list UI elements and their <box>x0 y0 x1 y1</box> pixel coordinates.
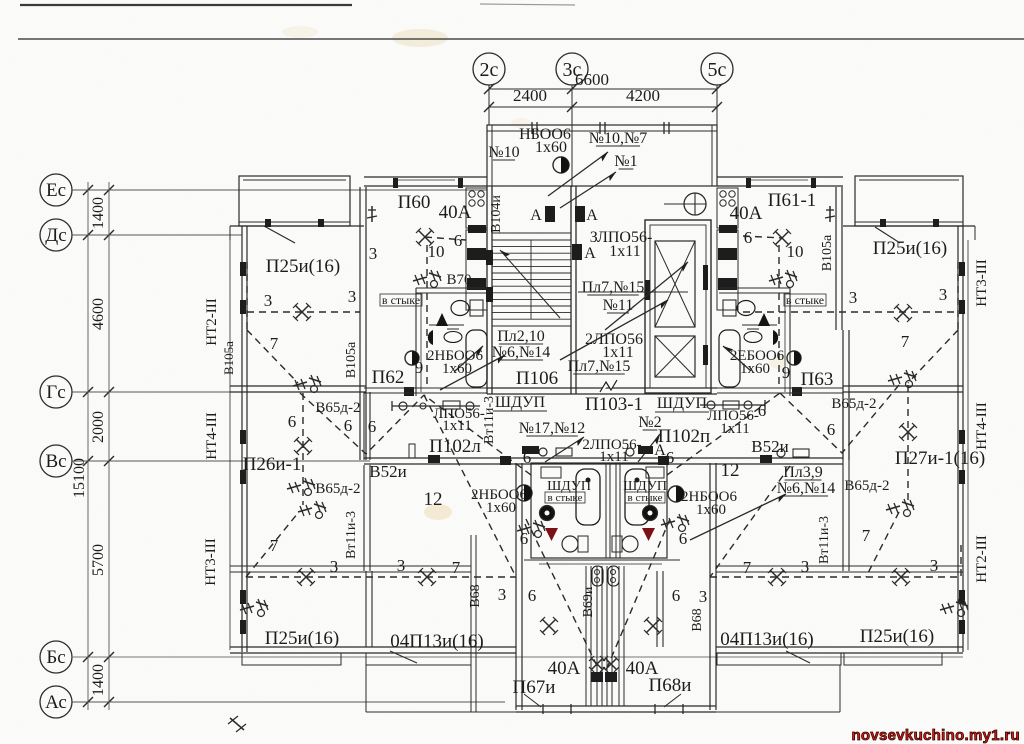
junction X bottom-left 2 <box>418 568 436 586</box>
wiring diagonals from bath block to wings <box>424 393 790 577</box>
lamp cluster П61 bath <box>769 270 797 288</box>
wiring left top room horizontal <box>247 311 360 313</box>
lower porch band <box>366 665 840 712</box>
stair wall dark marks <box>486 250 493 302</box>
balcony bottom-left 1 <box>242 653 341 665</box>
lift door slots <box>645 265 708 365</box>
junction X right top <box>894 304 912 322</box>
centre section bottom wall <box>487 388 717 394</box>
axis circle Бс <box>40 641 72 673</box>
label 2НБОО6 centre-right <box>681 489 738 518</box>
central bath washer units <box>541 467 664 478</box>
left wing window marks <box>240 262 246 634</box>
central bath dark triangles <box>545 528 655 541</box>
arrow lift lower <box>560 300 668 360</box>
balcony parapet marks left <box>265 219 324 227</box>
lift lobby left wall <box>575 230 577 388</box>
arrow №2 <box>638 434 660 462</box>
label в стыке right <box>784 293 826 307</box>
lift car upper <box>655 241 695 327</box>
axis line Гс <box>72 387 232 397</box>
axis circle 3с <box>556 53 588 85</box>
stair landing lines <box>492 233 571 326</box>
axis line Бс <box>72 652 963 662</box>
bathroom toilet left <box>451 300 483 316</box>
central block shelf line <box>524 560 680 564</box>
balcony bottom-right 2 <box>844 653 942 665</box>
label А black rect centre <box>638 446 653 454</box>
bottom wall of wing rooms <box>230 647 963 653</box>
junction X bottom-right 2 <box>892 568 910 586</box>
switch cluster centre-left wall <box>517 520 545 538</box>
room divider bottom right wing <box>657 571 663 647</box>
wall В105а right <box>836 187 849 460</box>
junction X centre right <box>644 617 662 635</box>
bathroom dashed drop left <box>426 245 428 388</box>
staircase left wall <box>487 186 492 394</box>
balcony bottom-right 1 <box>717 653 841 665</box>
central bath toilets <box>562 536 638 552</box>
bathroom dark triangle left <box>436 313 448 326</box>
fixture row corridor left <box>392 401 480 411</box>
balcony parapet marks right <box>880 219 939 227</box>
bathroom arrow right <box>723 346 751 371</box>
central bath tubs <box>576 469 649 525</box>
grid line 2с <box>484 84 494 125</box>
top centre balcony walls <box>487 125 717 186</box>
label А section marks <box>530 206 598 262</box>
balcony bottom-left 2 <box>366 653 471 665</box>
arrow lift upper <box>605 262 688 330</box>
central bathroom block walls <box>531 463 667 558</box>
label 2НБОО6 mid-left <box>427 348 484 377</box>
bathroom box right <box>719 288 790 396</box>
lamp centre-left <box>516 485 532 501</box>
axis circle 2с <box>473 53 505 85</box>
wall at Гс left wing <box>230 386 366 392</box>
grid line 3с <box>567 84 577 187</box>
wiring right top room horizontal <box>743 311 958 313</box>
wiring П63 V <box>780 385 908 500</box>
bathroom tub left <box>466 330 487 387</box>
shaft small fittings <box>592 566 619 586</box>
kitchen П61-1 fixtures <box>717 188 738 310</box>
bathroom dark triangle right <box>758 313 770 326</box>
kitchen dark blocks left extra <box>468 225 486 233</box>
axis circle Вс <box>40 445 72 477</box>
kitchen П60 fixtures <box>466 188 487 310</box>
dimension line 2400 4200 <box>489 86 717 107</box>
switch bottom-right corner <box>940 599 968 617</box>
arrow №17№12 <box>545 437 584 462</box>
label Пл3,9 <box>777 464 836 497</box>
label в стыке centre-left <box>545 492 585 504</box>
bottom centre right wall <box>710 463 716 710</box>
axis line Ес <box>72 185 487 195</box>
top border line 1 <box>20 4 352 6</box>
wiring kitchen П61-1 <box>743 236 782 238</box>
lift shaft <box>645 220 711 393</box>
staircase right wall <box>571 186 576 394</box>
lift car lower <box>655 336 695 377</box>
bathroom dashed drop right <box>778 245 780 388</box>
wiring right top diagonal <box>908 262 958 383</box>
label 2ЕБОО6 mid-right <box>730 348 785 377</box>
axis line Вс <box>72 456 370 466</box>
wiring right diagonal to bottom <box>866 512 899 577</box>
bottom centre bottom wall <box>516 706 716 712</box>
top border faint segment <box>480 4 575 5</box>
top balcony ticks <box>532 122 669 134</box>
shaft В69и-В68 walls <box>586 566 624 706</box>
switch bottom-left outer wall <box>228 716 246 732</box>
label 2ЛПО56 <box>585 331 643 361</box>
right wing window marks <box>959 262 965 634</box>
room divider bottom left <box>366 571 372 647</box>
junction X bottom-left 1 <box>297 568 315 586</box>
paper smudges <box>392 29 448 47</box>
bottom rooms top wall right-centre <box>716 566 843 572</box>
wiring П26и V <box>300 393 424 505</box>
junction X П60 <box>416 228 434 246</box>
axis circle 5с <box>701 53 733 85</box>
junction X left top <box>293 303 311 321</box>
axis circle Ес <box>40 174 72 206</box>
arrow №1 <box>560 172 616 208</box>
axis circle Гс <box>40 376 72 408</box>
bottom rooms top wall left <box>230 566 366 572</box>
bottom door swings <box>390 572 810 707</box>
wall В52и left side <box>364 465 370 571</box>
vent circle <box>664 193 706 215</box>
dimension 6600 <box>489 70 717 89</box>
left wing outer wall <box>230 226 247 652</box>
wall П62 bottom <box>364 388 487 393</box>
label Пл2,10 <box>492 328 551 361</box>
corridor bottom wall <box>364 458 843 464</box>
wall В105а left <box>360 187 366 460</box>
wiring numbers left wing <box>264 287 461 577</box>
bathroom lamp left <box>405 351 419 365</box>
axis circle Ас <box>40 686 72 718</box>
bathroom toilet right <box>723 300 755 316</box>
wall right wing mid <box>843 392 849 571</box>
wall break symbol <box>600 380 617 392</box>
label ЛПО56 right <box>707 408 759 437</box>
junction X centre bottom pair <box>589 656 619 682</box>
junction X П27и <box>899 423 917 441</box>
underline ШДУП stair <box>493 410 547 412</box>
wall П63 bottom <box>717 388 843 393</box>
top-left balcony <box>230 176 364 243</box>
scan noise overlay <box>0 0 1 1</box>
label 2НБОО6 centre-left <box>471 487 528 516</box>
arrow №10№7 <box>548 152 608 196</box>
bathroom box left <box>416 288 487 396</box>
switch cluster centre-right wall <box>661 514 689 532</box>
wiring left bottom horizontal <box>246 513 516 577</box>
lamp cluster П60 bath <box>413 270 441 288</box>
label в стыке centre-right <box>625 492 665 504</box>
stair arrow <box>500 250 560 318</box>
leader line Пл7 №15 <box>578 291 688 293</box>
building top wall left section <box>364 177 487 188</box>
label в стыке left <box>380 293 422 307</box>
bathroom sink left <box>428 329 462 345</box>
label Пл7 №15 <box>582 279 645 314</box>
top border line 2 <box>18 38 1024 40</box>
wiring kitchen П60 <box>425 237 466 240</box>
wall П26и-В52и left <box>364 392 370 460</box>
bottom wall window ticks <box>543 704 683 714</box>
entry strip wall 471 <box>471 535 476 712</box>
lamp centre-right <box>668 486 684 502</box>
bottom centre left wall <box>516 463 522 710</box>
building top wall right section <box>717 177 843 188</box>
wiring centre V left <box>526 519 670 668</box>
fixture pair centre corridor left <box>539 448 572 456</box>
door stub П102л <box>409 444 415 458</box>
lamp cluster left 1 <box>293 375 321 393</box>
lamp cluster left 3 <box>298 501 326 519</box>
lamp cluster left 2 <box>287 478 315 496</box>
bottom rooms top wall left-centre <box>366 566 471 572</box>
bottom rooms top wall right <box>843 566 963 572</box>
label НБОО6 top <box>519 126 571 156</box>
bathroom junction dark left <box>404 387 414 396</box>
bathroom tub right <box>719 330 740 387</box>
wiring right bottom horizontal <box>710 545 961 577</box>
bathroom arrow left <box>455 346 483 371</box>
corridor wall dark marks <box>428 446 772 465</box>
lamp НБОО6 top <box>553 157 569 173</box>
lamp cluster right 2 <box>886 499 914 517</box>
underline ШДУП right <box>655 411 709 413</box>
switch bottom-left corner <box>240 599 268 617</box>
axis line Ас <box>72 697 505 707</box>
central bath sinks dark <box>540 506 658 521</box>
wiring left top verticals <box>247 262 298 383</box>
bathroom sink right <box>744 329 778 345</box>
top-right balcony <box>843 176 975 243</box>
lamp cluster right 1 <box>888 370 916 388</box>
label ЛПО56 left <box>433 406 485 434</box>
svg-text:novsevkuchino.my1.ru: novsevkuchino.my1.ru <box>851 727 1020 744</box>
wiring numbers right wing <box>743 285 948 577</box>
fixture row corridor right <box>700 400 765 410</box>
bathroom junction dark right <box>792 387 802 396</box>
junction X centre left <box>540 617 558 635</box>
junction X bottom-right 1 <box>768 568 786 586</box>
arrow Пл3,9 <box>690 494 786 540</box>
bathroom lamp right <box>787 351 801 365</box>
kitchen dark blocks right extra <box>719 225 737 233</box>
axis line Дс <box>72 230 242 240</box>
fixture pair centre corridor right <box>626 448 809 457</box>
right wing outer wall <box>958 226 968 652</box>
left dimension chain lines <box>88 182 109 710</box>
junction X П26и <box>294 437 312 455</box>
switch П60 wall <box>367 206 377 222</box>
switch П61 wall <box>825 206 835 222</box>
stair treads <box>492 240 571 319</box>
axis circle Дс <box>40 219 72 251</box>
label 2ЛПО56 centre <box>582 437 641 465</box>
grid line 5с <box>712 84 722 125</box>
wiring numbers centre <box>369 228 804 606</box>
wall at Гс right wing <box>843 386 963 392</box>
label ЗЛПО56 <box>590 229 653 260</box>
arrow Пл2,10 left <box>440 355 505 390</box>
junction X П61-1 <box>773 229 791 247</box>
